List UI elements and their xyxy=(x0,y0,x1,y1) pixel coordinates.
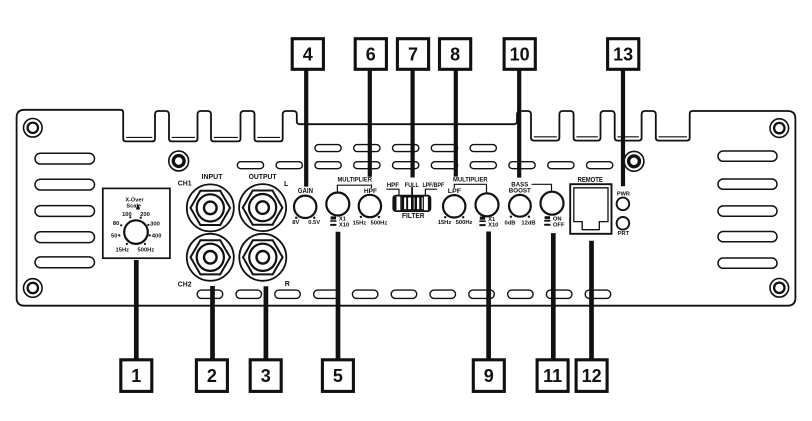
switch BASS BOOST ON/OFF xyxy=(541,192,565,229)
RCA jack CH1 input xyxy=(187,184,234,231)
svg-text:PWR: PWR xyxy=(617,191,630,197)
svg-text:LPF/BPF: LPF/BPF xyxy=(422,182,444,189)
svg-text:CH2: CH2 xyxy=(178,279,192,288)
svg-text:0.5V: 0.5V xyxy=(308,220,320,226)
jack labels xyxy=(178,172,290,288)
svg-text:X10: X10 xyxy=(488,223,498,229)
svg-text:1: 1 xyxy=(131,366,141,386)
svg-text:INPUT: INPUT xyxy=(202,172,223,181)
bottom vent slots row xyxy=(197,290,223,298)
callout box 11 xyxy=(537,360,568,392)
svg-text:0dB: 0dB xyxy=(505,220,516,226)
callout box 1 xyxy=(121,360,152,392)
knob BASS BOOST level xyxy=(509,195,531,218)
svg-text:LPF: LPF xyxy=(448,188,461,195)
svg-text:CH1: CH1 xyxy=(178,179,192,188)
svg-text:11: 11 xyxy=(543,366,562,386)
svg-text:400: 400 xyxy=(152,234,162,240)
svg-text:7: 7 xyxy=(408,44,418,64)
svg-text:BOOST: BOOST xyxy=(509,188,531,195)
svg-text:HPF: HPF xyxy=(364,188,377,195)
svg-text:500Hz: 500Hz xyxy=(456,220,473,226)
svg-text:8: 8 xyxy=(450,44,460,64)
svg-text:GAIN: GAIN xyxy=(298,188,313,195)
knob LPF xyxy=(443,195,465,218)
svg-text:MULTIPLIER: MULTIPLIER xyxy=(453,177,488,184)
svg-text:500Hz: 500Hz xyxy=(138,248,155,254)
small screw left xyxy=(169,151,189,171)
switch MULTIPLIER 1 (X1/X10) xyxy=(326,193,349,229)
callout box 9 xyxy=(473,360,504,392)
callout box 4 xyxy=(292,39,323,70)
callout box 5 xyxy=(322,360,353,392)
svg-text:15Hz: 15Hz xyxy=(116,248,130,254)
svg-text:300: 300 xyxy=(150,221,160,227)
right wing vent slots xyxy=(718,151,777,161)
svg-text:13: 13 xyxy=(613,44,633,64)
svg-text:3: 3 xyxy=(261,366,271,386)
svg-text:500Hz: 500Hz xyxy=(371,220,388,226)
middle vent slots row 2 xyxy=(237,162,263,169)
RCA jack output R xyxy=(239,234,286,281)
screw bottom-left xyxy=(24,279,43,298)
callout line 1 xyxy=(134,260,139,360)
svg-text:OFF: OFF xyxy=(553,222,565,228)
svg-text:X10: X10 xyxy=(339,223,349,229)
callout line 9 xyxy=(486,232,491,361)
callout box 10 xyxy=(504,39,535,70)
svg-text:15Hz: 15Hz xyxy=(353,220,367,226)
svg-text:2: 2 xyxy=(207,366,217,386)
screw top-left xyxy=(24,119,43,138)
svg-text:50: 50 xyxy=(111,233,117,239)
callout line 10 xyxy=(517,69,521,178)
filter slide switch xyxy=(393,196,430,212)
middle vent slots row 1 xyxy=(315,145,341,152)
callout line 4 xyxy=(304,69,308,187)
svg-text:FILTER: FILTER xyxy=(402,213,425,220)
svg-text:REMOTE: REMOTE xyxy=(578,177,604,184)
svg-text:15Hz: 15Hz xyxy=(438,220,452,226)
svg-text:OUTPUT: OUTPUT xyxy=(249,172,277,181)
svg-text:12dB: 12dB xyxy=(521,220,535,226)
callout line 2 xyxy=(210,286,215,360)
svg-text:R: R xyxy=(285,281,290,288)
knob HPF xyxy=(359,195,381,218)
callout box 2 xyxy=(196,360,227,392)
callout box 13 xyxy=(608,39,639,70)
LED PWR xyxy=(617,191,630,210)
callout line 8 xyxy=(454,69,458,177)
remote jack xyxy=(570,177,611,234)
svg-text:80: 80 xyxy=(113,221,119,227)
svg-text:6: 6 xyxy=(366,44,376,64)
screw bottom-right xyxy=(770,279,789,298)
callout box 12 xyxy=(576,360,607,392)
svg-text:9: 9 xyxy=(484,366,494,386)
callout line 3 xyxy=(264,286,269,360)
svg-text:8V: 8V xyxy=(292,220,299,226)
svg-text:10: 10 xyxy=(510,44,530,64)
svg-text:12: 12 xyxy=(582,366,602,386)
svg-text:PRT: PRT xyxy=(618,231,630,237)
callout line 12 xyxy=(589,241,594,360)
callout box 3 xyxy=(250,360,281,392)
switch MULTIPLIER 2 (X1/X10) xyxy=(476,193,499,228)
callout box 6 xyxy=(355,39,386,70)
callout box 8 xyxy=(440,39,471,70)
MULTIPLIER 1 label and bracket xyxy=(337,177,372,193)
RCA jack output L xyxy=(239,184,286,231)
BASS BOOST label and bracket xyxy=(509,182,552,195)
screw top-right xyxy=(770,119,789,138)
callout line 7 xyxy=(411,69,415,178)
svg-text:L: L xyxy=(284,181,289,188)
X-Over scale box xyxy=(103,188,170,258)
svg-text:MULTIPLIER: MULTIPLIER xyxy=(337,177,372,184)
small screw right xyxy=(624,151,644,171)
svg-text:HPF: HPF xyxy=(387,182,399,189)
knob GAIN xyxy=(294,196,316,219)
callout line 5 xyxy=(336,232,341,360)
right recess lip xyxy=(534,136,687,138)
RCA jack CH2 input xyxy=(187,234,234,281)
X-Over knob xyxy=(118,204,151,245)
MULTIPLIER 2 label and bracket xyxy=(453,177,488,193)
callout line 6 xyxy=(368,69,372,177)
panel outline xyxy=(17,110,796,306)
callout line 11 xyxy=(551,233,556,360)
callout line 13 xyxy=(621,69,625,186)
left recess lip xyxy=(126,136,280,138)
svg-text:4: 4 xyxy=(303,44,313,64)
filter labels and brackets xyxy=(386,182,444,220)
callout box 7 xyxy=(397,39,428,70)
left wing vent slots xyxy=(35,153,95,164)
svg-text:5: 5 xyxy=(333,366,343,386)
LED PRT xyxy=(617,217,630,237)
